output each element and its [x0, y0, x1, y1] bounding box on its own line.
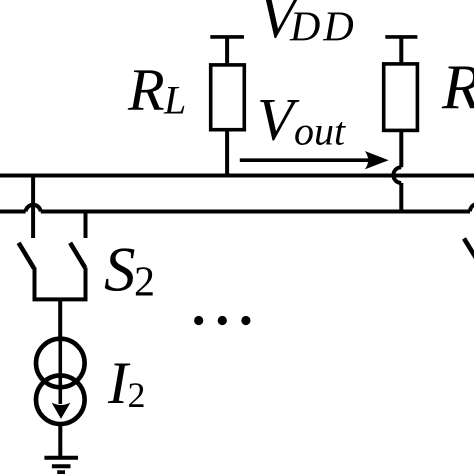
power VDD T-bar and lead for R [385, 37, 417, 64]
label V_DD [259, 0, 357, 51]
svg-text:2: 2 [134, 260, 155, 306]
Vout arrow [240, 151, 389, 169]
wire I2 to ground [58, 424, 62, 456]
wire R_L bottom lead [225, 130, 229, 176]
svg-text:DD: DD [289, 5, 357, 51]
wire hop: R lead jumps over Vout bus [393, 167, 401, 183]
svg-text:L: L [163, 78, 186, 123]
wire lower bus left segment [0, 210, 26, 214]
wire upper bus (Vout node) [0, 174, 474, 178]
svg-text:R: R [441, 52, 474, 123]
label R [441, 52, 474, 123]
wire R bottom lead lower segment [399, 183, 403, 212]
wire lower bus right segment [41, 210, 470, 214]
switch S2 [19, 243, 86, 300]
label R_L [127, 57, 186, 123]
label I_2 [107, 350, 146, 416]
svg-text:out: out [294, 109, 346, 154]
wire S2 left terminal from upper bus [31, 176, 35, 239]
power VDD T-bar and lead for R_L [210, 37, 244, 65]
wire hop: lower bus jumps over S2 drive wire [26, 205, 41, 212]
label S_2 [104, 235, 155, 306]
label V_out [257, 87, 346, 154]
wire S2 right terminal from lower bus [84, 212, 88, 239]
wire S2 common down to I2 [58, 299, 62, 340]
svg-text:R: R [127, 57, 165, 123]
wire R bottom lead upper segment [399, 130, 403, 167]
resistor R [384, 64, 418, 130]
ground [44, 458, 78, 473]
svg-text:2: 2 [128, 375, 146, 415]
current source I2 [36, 338, 85, 424]
resistor R_L [211, 65, 245, 130]
svg-text:S: S [104, 235, 136, 305]
wire hop at right edge (cut off) [470, 204, 474, 212]
ellipsis marking repeated branches [194, 316, 250, 325]
partial switch lever of next cell (cut off at right edge) [464, 239, 474, 265]
